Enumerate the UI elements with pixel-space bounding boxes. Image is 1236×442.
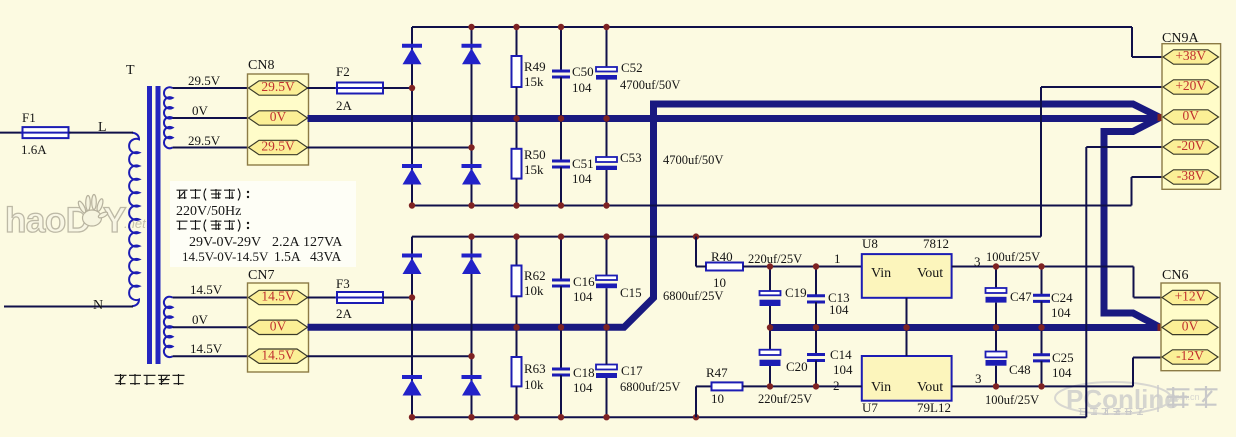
regulator U8 7812 xyxy=(862,254,952,298)
capacitor C53 4700uF xyxy=(596,157,617,162)
junction U8U7 gnd xyxy=(903,324,909,330)
transformer secondary winding upper xyxy=(164,87,173,148)
svg-text:220V/50Hz: 220V/50Hz xyxy=(176,204,241,219)
wire tap 29.5V bottom to CN8 xyxy=(173,147,249,149)
capacitor C17 6800uF xyxy=(596,365,617,370)
wire CN8 pin1 to F2 xyxy=(308,87,338,89)
diode D8 bridge2 lower-right xyxy=(462,375,482,379)
svg-text:R50: R50 xyxy=(524,147,546,162)
svg-text:1.6A: 1.6A xyxy=(21,142,47,157)
svg-text:100uf/25V: 100uf/25V xyxy=(986,250,1040,264)
svg-text:10: 10 xyxy=(711,391,724,406)
watermark forum chars xyxy=(1157,385,1159,412)
label toroidal transformer xyxy=(115,374,127,376)
capacitor C51 xyxy=(552,160,570,163)
svg-text:14.5V: 14.5V xyxy=(190,341,223,356)
wire C20 top lead xyxy=(769,328,771,350)
capacitor C48 100uF xyxy=(986,352,1007,358)
svg-text:PConline: PConline xyxy=(1066,384,1179,414)
wire C50 top lead xyxy=(560,27,562,70)
diode D7 bridge2 lower-left xyxy=(402,375,422,379)
svg-text:15k: 15k xyxy=(524,74,544,89)
wire R49-R50 link xyxy=(516,87,518,149)
pin CN6 0V xyxy=(1162,320,1218,334)
svg-text:Vin: Vin xyxy=(871,266,891,281)
bus 0V lower from CN7 with riser xyxy=(308,104,1161,327)
svg-text:29.5V: 29.5V xyxy=(261,79,295,94)
svg-text:29.5V: 29.5V xyxy=(188,133,221,148)
wire R63 bottom lead xyxy=(516,386,518,417)
svg-text:+38V: +38V xyxy=(1175,48,1206,63)
junction bridge2 bottom right xyxy=(468,414,474,420)
wire C48 bottom lead xyxy=(995,366,997,387)
svg-text:C48: C48 xyxy=(1009,362,1031,377)
svg-text:R63: R63 xyxy=(524,361,546,376)
svg-text:CN7: CN7 xyxy=(248,268,274,283)
junction C52C53 bus xyxy=(603,115,609,121)
svg-text:220uf/25V: 220uf/25V xyxy=(758,392,812,406)
diode D2 bridge1 upper-right xyxy=(462,44,482,48)
wire mains L to F1 xyxy=(0,132,23,134)
junction R49R50 bus xyxy=(513,115,519,121)
wire R62 top lead xyxy=(516,237,518,266)
junction R49 top xyxy=(513,24,519,30)
svg-text:29.5V: 29.5V xyxy=(188,73,221,88)
wire C24 bottom lead xyxy=(1041,301,1043,327)
wire R40 to U8 Vin xyxy=(743,266,862,268)
svg-text:104: 104 xyxy=(572,171,592,186)
svg-text:6800uf/25V: 6800uf/25V xyxy=(620,380,680,394)
svg-text:C19: C19 xyxy=(785,285,807,300)
svg-text:CN8: CN8 xyxy=(248,58,274,73)
wire C47 bottom lead xyxy=(995,303,997,328)
wire C17 bottom lead xyxy=(606,378,608,417)
svg-text:14.5V: 14.5V xyxy=(190,282,223,297)
svg-text:-38V: -38V xyxy=(1177,168,1205,183)
junction C52 top xyxy=(603,24,609,30)
junction R40 tap xyxy=(693,233,699,239)
wire C24 top lead xyxy=(1041,267,1043,295)
wire R62-R63 link xyxy=(516,296,518,357)
wire bridge2 right column xyxy=(471,237,473,418)
fuse F1 xyxy=(23,127,69,138)
svg-text:C14: C14 xyxy=(830,347,852,362)
capacitor C25 xyxy=(1033,353,1050,356)
junction C15C17 bus xyxy=(603,324,609,330)
wire C15 bottom lead xyxy=(606,288,608,327)
resistor R50 xyxy=(512,149,522,179)
pin CN7-2 0V xyxy=(249,320,308,334)
junction C13C14 bus xyxy=(813,324,819,330)
pin CN8-1 29.5V xyxy=(249,81,308,95)
wire bridge2 left column xyxy=(411,237,413,418)
wire -12V rail xyxy=(952,385,1133,387)
svg-text:C25: C25 xyxy=(1052,350,1074,365)
wire R47 left stub xyxy=(696,385,712,387)
watermark PConline bottom right xyxy=(1055,382,1200,414)
wire CN7 pin1 to F3 xyxy=(308,297,338,299)
junction C18 bottom xyxy=(558,414,564,420)
svg-text:6800uf/25V: 6800uf/25V xyxy=(663,289,723,303)
transformer secondary winding lower xyxy=(164,297,173,357)
wire +12V drop to CN6 xyxy=(1133,267,1135,298)
svg-text:14.5V-0V-14.5V: 14.5V-0V-14.5V xyxy=(182,249,269,264)
connector CN8 xyxy=(248,74,309,165)
capacitor C52 4700uF xyxy=(596,67,617,72)
capacitor C24 xyxy=(1033,294,1050,297)
junction C19C20 bus xyxy=(767,324,773,330)
svg-text:0V: 0V xyxy=(270,109,287,124)
diode D1 bridge1 upper-left xyxy=(402,44,422,48)
svg-text:Y: Y xyxy=(103,201,126,240)
svg-text:29V-0V-29V: 29V-0V-29V xyxy=(189,235,261,250)
watermark luntan xyxy=(1167,388,1190,390)
pin CN9A 0V xyxy=(1163,110,1219,124)
wire C16-C18 link xyxy=(560,286,562,368)
junction R62 top xyxy=(513,233,519,239)
svg-text:R40: R40 xyxy=(711,249,733,264)
bus 0V main horizontal from CN8 xyxy=(308,118,1161,119)
svg-text:10: 10 xyxy=(713,275,726,290)
svg-text:104: 104 xyxy=(1052,365,1072,380)
pin CN9A -20V xyxy=(1163,140,1219,154)
wire C13 top lead xyxy=(815,267,817,295)
svg-text:104: 104 xyxy=(572,80,592,95)
svg-text:1.5A: 1.5A xyxy=(274,249,301,264)
regulator U7 79L12 xyxy=(862,356,952,401)
wire C53 bottom lead xyxy=(606,170,608,206)
svg-text:C15: C15 xyxy=(620,285,642,300)
wire +12V to CN6 pin xyxy=(1134,297,1164,299)
junction C15 top xyxy=(603,233,609,239)
wire C14 top lead xyxy=(815,328,817,354)
wire tap 29.5V top to CN8 xyxy=(173,87,249,89)
svg-text:4700uf/50V: 4700uf/50V xyxy=(663,153,723,167)
wire -38V rise xyxy=(1131,177,1133,206)
transformer core xyxy=(147,86,152,364)
junction R62R63 bus xyxy=(513,324,519,330)
svg-text:14.5V: 14.5V xyxy=(261,289,295,304)
svg-text:15k: 15k xyxy=(524,162,544,177)
pin CN9A +20V xyxy=(1163,80,1219,94)
svg-text:R49: R49 xyxy=(524,59,546,74)
junction C13 Vin xyxy=(813,263,819,269)
junction R50 bottom xyxy=(513,202,519,208)
diode D6 bridge2 upper-right xyxy=(462,254,482,258)
wire -20V to pin xyxy=(1086,146,1163,148)
wire -38V raw rail xyxy=(412,205,1132,207)
wire C47 top lead xyxy=(995,267,997,289)
diode D4 bridge1 lower-right xyxy=(462,164,482,168)
svg-text:C18: C18 xyxy=(573,365,595,380)
svg-text:220uf/25V: 220uf/25V xyxy=(748,252,802,266)
svg-text:4700uf/50V: 4700uf/50V xyxy=(620,78,680,92)
pin CN9A +38V xyxy=(1163,50,1219,64)
junction bridge1 AC1 xyxy=(409,85,415,91)
svg-text:+20V: +20V xyxy=(1175,78,1206,93)
capacitor C20 220uF xyxy=(760,350,781,355)
wire +20V raw rail xyxy=(412,236,1041,238)
junction C47C48 bus xyxy=(993,324,999,330)
capacitor C47 100uF xyxy=(986,288,1007,293)
svg-text:43VA: 43VA xyxy=(310,249,342,264)
svg-text:29.5V: 29.5V xyxy=(261,139,295,154)
wire bridge1 left column xyxy=(411,27,413,206)
capacitor C14 xyxy=(807,353,825,356)
svg-text:3: 3 xyxy=(974,254,981,269)
junction bridge2 AC2 xyxy=(468,353,474,359)
junction C50 top xyxy=(558,24,564,30)
wire -12V rise to CN6 xyxy=(1132,358,1134,387)
svg-text:T: T xyxy=(126,63,135,78)
svg-text:C47: C47 xyxy=(1010,289,1032,304)
wire R40 drop xyxy=(695,237,697,267)
pin CN7-3 14.5V xyxy=(249,349,308,363)
pin CN7-1 14.5V xyxy=(249,290,308,304)
wire C20 bottom lead xyxy=(769,366,771,386)
svg-text:+12V: +12V xyxy=(1175,289,1206,304)
fuse F3 xyxy=(337,292,383,303)
wire +12V rail xyxy=(952,266,1134,268)
svg-text:79L12: 79L12 xyxy=(917,400,951,415)
svg-text:104: 104 xyxy=(833,362,853,377)
wire +20V to pin xyxy=(1041,86,1163,88)
svg-text:10k: 10k xyxy=(524,283,544,298)
svg-text:0V: 0V xyxy=(270,319,287,334)
capacitor C15 6800uF xyxy=(596,276,617,281)
wire C19 bottom lead xyxy=(769,306,771,328)
junction bridge1 AC2 xyxy=(468,144,474,150)
svg-text:10k: 10k xyxy=(524,377,544,392)
pin CN6 +12V xyxy=(1162,290,1218,304)
capacitor C13 xyxy=(807,294,825,297)
svg-text:-12V: -12V xyxy=(1176,348,1204,363)
wire CN7 pin3 to bridge2 AC2 xyxy=(308,355,472,357)
capacitor C18 xyxy=(552,368,570,371)
connector CN9A xyxy=(1162,44,1221,190)
wire F3 to bridge2 AC1 xyxy=(383,297,412,299)
info box primary/secondary spec xyxy=(170,181,356,267)
wire F1 to primary xyxy=(69,132,134,134)
wire C48 top lead xyxy=(995,328,997,352)
svg-text:104: 104 xyxy=(1051,305,1071,320)
diode D5 bridge2 upper-left xyxy=(402,254,422,258)
svg-text:CN6: CN6 xyxy=(1162,268,1188,283)
wire F2 to bridge1 AC1 xyxy=(383,87,412,89)
wire -20V riser xyxy=(1085,147,1087,417)
pin CN9A -38V xyxy=(1163,170,1219,184)
pin CN8-2 0V xyxy=(249,111,308,125)
capacitor C19 220uF xyxy=(760,291,781,295)
wire R47 drop xyxy=(695,386,697,417)
junction bridge2 top right col xyxy=(468,233,474,239)
svg-text:F2: F2 xyxy=(336,64,350,79)
svg-text:C24: C24 xyxy=(1051,290,1073,305)
svg-text:C16: C16 xyxy=(573,274,595,289)
svg-text:R47: R47 xyxy=(706,365,728,380)
junction CN6 0V xyxy=(1158,324,1165,331)
svg-text:F3: F3 xyxy=(336,276,350,291)
svg-text:C50: C50 xyxy=(572,64,594,79)
svg-text:Vout: Vout xyxy=(917,266,943,281)
junction C24 +12V xyxy=(1038,263,1044,269)
junction bridge1 bottom left xyxy=(409,202,415,208)
wire C52 top lead xyxy=(606,27,608,67)
junction C16C18 bus xyxy=(558,324,564,330)
svg-text:C20: C20 xyxy=(786,359,808,374)
wire -12V to CN6 pin xyxy=(1133,357,1163,359)
junction C51 bottom xyxy=(558,202,564,208)
junction R47 tap xyxy=(693,414,699,420)
svg-text:N: N xyxy=(93,298,103,313)
wire -38V to pin xyxy=(1132,176,1164,178)
wire tap 0V lower to CN7 xyxy=(173,326,249,328)
wire C25 bottom lead xyxy=(1041,361,1043,387)
junction bridge1 bottom right xyxy=(468,202,474,208)
svg-text:L: L xyxy=(98,120,107,135)
info text line3 ciji xyxy=(177,220,188,222)
svg-text:Vin: Vin xyxy=(871,380,891,395)
svg-text:Vout: Vout xyxy=(917,380,943,395)
junction C53 bottom xyxy=(603,202,609,208)
wire R49 top lead xyxy=(516,27,518,56)
svg-text:14.5V: 14.5V xyxy=(261,347,295,362)
svg-text:0V: 0V xyxy=(192,312,209,327)
watermark chinese PConline xyxy=(1079,408,1087,410)
wire tap 0V to CN8 xyxy=(173,117,249,119)
svg-text:haoD: haoD xyxy=(5,201,91,240)
junction R63 bottom xyxy=(513,414,519,420)
wire C19 top lead xyxy=(769,267,771,292)
wire U8 gnd pin2 xyxy=(906,298,908,328)
junction C47 +12V xyxy=(993,263,999,269)
wire -20V raw rail xyxy=(412,416,1086,418)
svg-text:F1: F1 xyxy=(22,110,36,125)
wire C51 bottom lead xyxy=(560,167,562,206)
junction C19 Vin xyxy=(767,263,773,269)
connector CN7 xyxy=(248,283,309,372)
bus 0V right vertical link CN9A to CN6 xyxy=(1104,118,1160,328)
wire CN8 pin3 to bridge1 AC2 xyxy=(308,147,472,149)
watermark haoDY left xyxy=(5,195,147,241)
junction C16 top xyxy=(558,233,564,239)
wire bridge1 right column xyxy=(471,27,473,206)
wire C17 top lead xyxy=(606,327,608,364)
svg-text:1: 1 xyxy=(834,251,841,266)
junction C17 bottom xyxy=(603,414,609,420)
svg-text:2.2A: 2.2A xyxy=(272,235,301,250)
pin CN8-3 29.5V xyxy=(249,140,308,154)
diode D3 bridge1 lower-left xyxy=(402,164,422,168)
wire +38V drop xyxy=(1131,27,1133,57)
pin CN6 -12V xyxy=(1162,350,1218,364)
capacitor C50 xyxy=(552,70,570,73)
resistor R47 xyxy=(712,382,743,390)
svg-text:3: 3 xyxy=(975,371,982,386)
junction C14 Vin2 xyxy=(813,383,819,389)
svg-text:U7: U7 xyxy=(862,400,878,415)
resistor R62 xyxy=(512,266,522,297)
svg-text:C17: C17 xyxy=(621,363,643,378)
wire tap 14.5V top to CN7 xyxy=(173,297,249,299)
resistor R40 xyxy=(706,263,743,271)
wire C14 bottom lead xyxy=(815,361,817,387)
svg-text:0V: 0V xyxy=(1183,108,1200,123)
wire U7 gnd pin2 xyxy=(906,328,908,357)
wire N to primary xyxy=(4,306,133,308)
junction C48 -12V xyxy=(993,383,999,389)
svg-text:104: 104 xyxy=(829,302,849,317)
wire tap 14.5V bottom to CN7 xyxy=(173,355,249,357)
wire R40 left stub xyxy=(696,266,706,268)
svg-text:7812: 7812 xyxy=(923,236,949,251)
wire +38V to pin xyxy=(1132,56,1163,58)
svg-text:C53: C53 xyxy=(620,150,642,165)
wire C50-C51 link xyxy=(560,77,562,160)
wire C13 bottom lead xyxy=(815,302,817,328)
junction bridge2 bottom left xyxy=(409,414,415,420)
svg-text:104: 104 xyxy=(573,289,593,304)
junction C20 Vin2 xyxy=(767,383,773,389)
resistor R49 xyxy=(512,56,522,87)
junction C25 -12V xyxy=(1038,383,1044,389)
wire R47 to U7 Vin xyxy=(743,385,862,387)
svg-text:0V: 0V xyxy=(1182,319,1199,334)
wire R50 bottom lead xyxy=(516,179,518,206)
svg-text:-20V: -20V xyxy=(1177,138,1205,153)
junction bridge2 AC1 xyxy=(409,294,415,300)
wire C18 bottom lead xyxy=(560,375,562,417)
capacitor C16 xyxy=(552,279,570,282)
wire C25 top lead xyxy=(1041,328,1043,354)
wire +38V raw rail xyxy=(412,26,1132,28)
junction C50C51 bus xyxy=(558,115,564,121)
svg-text:U8: U8 xyxy=(862,236,878,251)
wire C16 top lead xyxy=(560,237,562,279)
svg-text:C52: C52 xyxy=(621,60,643,75)
svg-text:2A: 2A xyxy=(336,98,353,113)
svg-text:C51: C51 xyxy=(572,156,594,171)
svg-text:100uf/25V: 100uf/25V xyxy=(985,393,1039,407)
svg-text:0V: 0V xyxy=(192,103,209,118)
svg-text:2A: 2A xyxy=(336,306,353,321)
transformer primary winding xyxy=(129,133,139,307)
wire C52-C53 link xyxy=(606,80,608,157)
svg-text:104: 104 xyxy=(573,380,593,395)
connector CN6 xyxy=(1161,283,1220,371)
junction C24C25 bus xyxy=(1038,324,1044,330)
info text line1 chuji xyxy=(177,189,188,191)
junction CN9A 0V xyxy=(1158,114,1165,121)
bus 0V regulator section xyxy=(770,324,1161,331)
resistor R63 xyxy=(512,357,522,386)
svg-text:127VA: 127VA xyxy=(303,235,343,250)
fuse F2 xyxy=(337,83,383,94)
junction bridge1 top right col xyxy=(468,24,474,30)
svg-text:R62: R62 xyxy=(524,268,546,283)
wire +20V riser xyxy=(1040,87,1042,237)
wire C15 top lead xyxy=(606,237,608,276)
